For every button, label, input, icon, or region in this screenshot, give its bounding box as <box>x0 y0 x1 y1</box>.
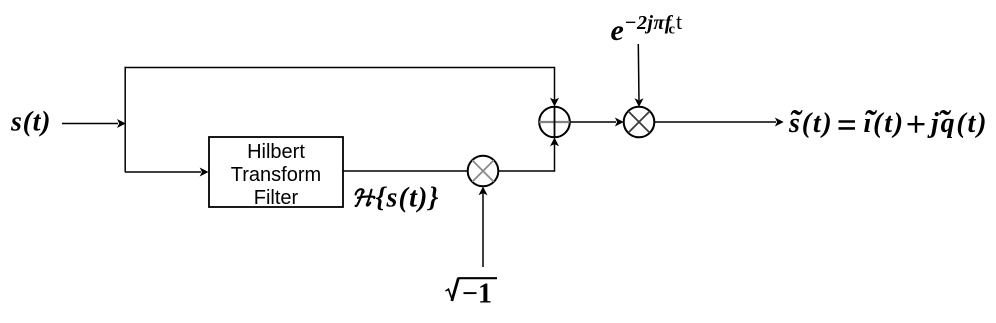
wire lower branch into Hilbert box <box>125 171 201 173</box>
wire vertical split line <box>124 67 126 172</box>
node H{s(t)} label <box>356 183 440 214</box>
svg-text:e: e <box>611 14 624 47</box>
svg-text:c: c <box>669 22 676 38</box>
multiplier M2 (carrier mixer) <box>624 107 655 138</box>
wire sqrt(-1) up into M1 <box>482 193 484 267</box>
wire summer to multiplier M2 <box>570 121 616 123</box>
wire input arrow from s(t) to split junction <box>62 123 118 125</box>
node e^(-2 j pi fc t) label <box>611 9 683 47</box>
equals sign <box>839 120 856 123</box>
wire M1 output up into summer <box>498 170 554 172</box>
node sqrt(-1) label <box>446 278 498 309</box>
Hilbert Transform Filter box <box>209 137 343 207</box>
svg-text:s(t)ı(t)jq(t): s(t)ı(t)jq(t) <box>788 108 988 139</box>
summer S1 <box>539 107 570 138</box>
wire top branch horizontal <box>125 67 555 69</box>
wire box to multiplier M1 <box>343 170 468 172</box>
svg-text:s(t): s(t) <box>10 107 51 138</box>
svg-text:−2jπf: −2jπf <box>625 12 674 34</box>
svg-text:−1: −1 <box>462 279 492 310</box>
wire M2 output to result <box>654 121 776 123</box>
multiplier M1 (sqrt(-1) mixer) <box>468 156 499 187</box>
node output label s~(t) = i~(t) + j q~(t) <box>788 104 988 141</box>
svg-text:Hilbert: Hilbert <box>247 141 305 163</box>
svg-text:Filter: Filter <box>254 187 299 209</box>
svg-text:Transform: Transform <box>231 164 321 186</box>
wire e label down into M2 <box>637 44 640 100</box>
script H drawn as path <box>356 189 375 206</box>
wire top branch vertical into summer <box>554 67 556 100</box>
plus sign <box>908 123 925 125</box>
svg-text:{s(t)}: {s(t)} <box>376 183 440 214</box>
svg-text:t: t <box>676 9 682 34</box>
